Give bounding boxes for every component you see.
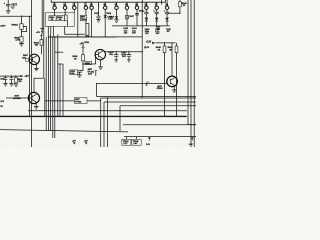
test point TP602 [94,71,97,76]
wire [41,0,43,32]
svg-text:3.4V: 3.4V [133,142,138,145]
cap C608 [143,9,149,17]
diode D604 [104,15,107,18]
cap labels right [145,29,172,35]
svg-text:Z: Z [145,83,148,87]
wire pin 105.2 [104,9,106,37]
wire x100.7 [100,98,102,147]
pin number labels (cropped at top) [53,3,169,7]
diode D601 [145,18,149,26]
VR601 pot [20,24,27,37]
wire [50,34,52,131]
svg-text:10u: 10u [109,54,113,56]
svg-text:+6V: +6V [72,140,76,142]
svg-text:8T606: 8T606 [157,88,164,90]
labels under mid rail [123,27,137,34]
resistor R641 [175,43,178,117]
middle vertical bus bundle [42,0,63,138]
svg-text:2SC458: 2SC458 [13,97,21,100]
cap C613 [135,13,139,15]
svg-text:+6V: +6V [84,140,88,142]
wire C620 [80,64,84,71]
resistor R605 [19,37,24,47]
thick bus [0,115,187,117]
wires below network box [48,21,116,37]
wire y136.6 [124,136,196,138]
net label Z [145,83,148,87]
wire branch 88.9 [86,24,89,37]
wire jog [58,63,63,65]
svg-text:C621: C621 [0,79,5,81]
svg-text:+5V: +5V [36,32,40,34]
mid rail y25.9 [112,25,170,27]
test point stub on bus [40,29,44,34]
base line right transistor [96,83,196,96]
bottom rails [0,97,196,147]
wires under mid pins [78,0,142,98]
boxed label 8601 [85,61,92,64]
cap C620 [77,71,82,77]
cap C621 [3,76,7,86]
+5V arrow mid [81,45,84,54]
transistor Q601 [29,54,39,71]
wire [193,0,195,147]
Q603 labels [157,86,164,90]
Q604 labels [13,96,21,100]
wire pin 116.5 [116,9,118,16]
right vertical bus [188,0,196,147]
wire [47,37,49,131]
pin circles [53,6,169,10]
bus wire [29,16,31,116]
wire jog y52 [55,51,64,53]
wire [188,0,196,125]
+5V rail left bottom [0,75,24,77]
resistor R604 [40,34,43,54]
ground rail right [156,26,161,29]
cap C622 [9,76,13,86]
wire x104 [103,102,105,147]
labels near pin 85.9 wire [84,36,90,45]
wire x77.8 [77,2,79,37]
bottom stubs [148,137,194,141]
wire [45,37,47,131]
12V arrow right [152,42,175,45]
svg-text:100u: 100u [70,73,75,75]
svg-text:220: 220 [18,81,21,83]
svg-text:8.8V: 8.8V [88,73,93,75]
wire x120 [119,106,121,131]
wire [54,36,56,138]
wire pin 85.9 [85,9,87,37]
wire x107 [106,98,108,147]
wire [62,64,64,116]
transistor Q603 [167,43,178,92]
diode D603 [165,18,169,26]
svg-text:TP606: TP606 [75,102,82,104]
svg-text:4.7K: 4.7K [15,39,20,42]
resistor R616 [126,15,129,19]
pin stubs from IC [55,0,168,6]
top-left cap C607 [4,0,11,13]
svg-text:+5V: +5V [24,75,29,78]
wire [43,0,45,78]
mid rail y36 [48,36,142,38]
wire y98 [101,97,196,99]
svg-text:TP601: TP601 [81,19,88,21]
boxed label mid-bottom [75,98,88,104]
diode D602 [155,18,159,26]
wire y111 [28,110,187,112]
svg-text:200V: 200V [0,26,6,28]
IC U601 bottom edge [51,0,165,2]
cap C615 [114,52,118,62]
transistor Q604 [6,78,45,116]
wire [59,64,61,116]
wire [57,34,59,116]
svg-text:2.1V: 2.1V [123,143,128,145]
boxed label C620 [70,70,78,74]
resistor R609 [14,76,18,86]
svg-text:+12V: +12V [146,41,152,44]
cap C610 [164,9,170,17]
wire pin 137 [136,9,138,26]
cap C609 [153,9,159,17]
wire pin 91.6 [91,9,93,37]
wire [190,0,192,147]
bus wire [31,0,33,147]
TP boxed labels bottom [122,137,141,146]
resistor R615 [114,16,118,22]
wire [45,100,101,102]
svg-text:R617: R617 [129,16,134,18]
wire y106 [120,105,196,107]
cap C616 [127,52,131,62]
wire pin 127 [126,9,128,26]
wire pin 98.5 [98,4,100,16]
collector rail 12V [104,51,143,53]
wire [52,36,54,138]
wire to VR601 [0,16,32,24]
cap C612 [96,16,100,22]
svg-text:(5.3V: (5.3V [144,47,150,49]
MNT TP-602 text [87,69,94,75]
svg-text:+5V: +5V [79,41,84,45]
resistor R640 [163,43,166,117]
resistor R608 [82,55,85,65]
svg-text:12V: 12V [0,101,4,103]
resistor network box RA601 [45,9,74,26]
+6V test points [72,140,88,142]
svg-text:16V: 16V [122,56,126,58]
right top resistor R642 [169,0,182,14]
wire base Q602 [83,63,96,65]
wire x142 [141,0,143,98]
transistor Q602 [95,49,105,69]
wire y124.8 [123,124,196,126]
svg-text:VR601: VR601 [11,24,18,26]
wire y130.8 [0,130,128,132]
RA601 texts [49,17,63,21]
boxed label TP601 [80,15,86,20]
Q601 labels [22,55,29,59]
wire y102 [104,101,196,103]
